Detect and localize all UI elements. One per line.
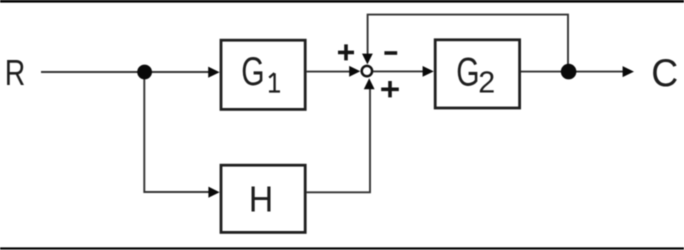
- svg-text:H: H: [249, 179, 274, 219]
- svg-text:G: G: [241, 50, 264, 94]
- svg-text:G: G: [456, 50, 479, 94]
- svg-text:R: R: [5, 52, 26, 93]
- svg-text:C: C: [651, 53, 678, 96]
- svg-text:2: 2: [478, 66, 495, 100]
